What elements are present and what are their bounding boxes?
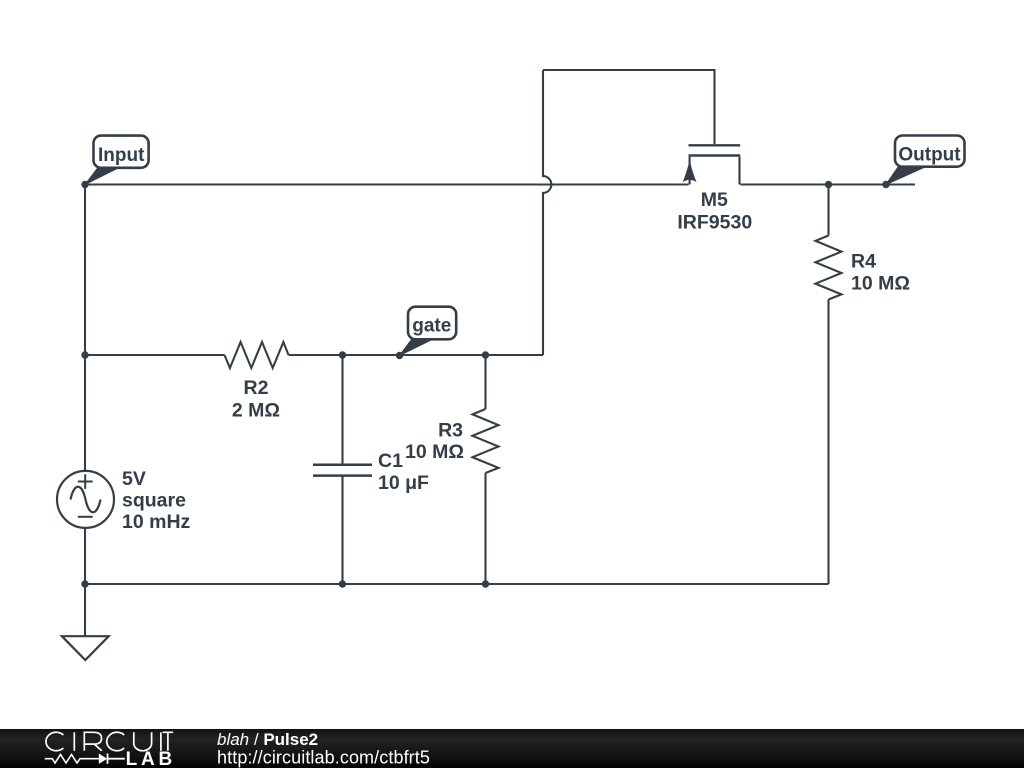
node dot C1 top bbox=[339, 351, 346, 358]
svg-text:5V: 5V bbox=[122, 468, 146, 490]
voltage source V1 minus sign bbox=[78, 516, 93, 518]
wire mid rail right (R2 to corner) bbox=[289, 354, 544, 356]
node dot R4 top junction bbox=[825, 181, 832, 188]
svg-text:R4: R4 bbox=[851, 251, 876, 273]
wire left vertical lower (V1 to bottom rail) bbox=[84, 528, 86, 584]
node dot gate anchor bbox=[396, 352, 403, 359]
capacitor C1 bottom lead bbox=[341, 477, 343, 585]
svg-text:10 MΩ: 10 MΩ bbox=[851, 273, 910, 295]
node dot Input bbox=[81, 181, 88, 188]
node dot left mid rail bbox=[81, 351, 88, 358]
logo resistor squiggle bbox=[45, 755, 99, 764]
resistor R4 bottom lead bbox=[827, 300, 829, 585]
wire top jog to M5 gate bbox=[543, 70, 715, 144]
node dot Output anchor bbox=[882, 181, 889, 188]
voltage source V1 plus sign bbox=[78, 474, 93, 489]
svg-text:R3: R3 bbox=[438, 420, 463, 442]
svg-text:square: square bbox=[122, 490, 186, 512]
resistor R3 bottom lead bbox=[484, 473, 486, 584]
voltage source V1 circle bbox=[57, 471, 114, 528]
svg-text:2 MΩ: 2 MΩ bbox=[232, 400, 280, 422]
transistor M5 gate bar bbox=[689, 144, 741, 146]
flag Input box bbox=[94, 136, 149, 168]
logo CIRCUIT outline letters bbox=[46, 732, 173, 751]
node dot R3 top bbox=[482, 351, 489, 358]
wire top rail right segment (M5 drain to right end) bbox=[741, 183, 916, 185]
flag Output box bbox=[895, 136, 965, 167]
flag Output tail bbox=[886, 167, 925, 185]
capacitor C1 top lead bbox=[341, 355, 343, 464]
svg-text:IRF9530: IRF9530 bbox=[677, 212, 752, 234]
svg-text:10 mHz: 10 mHz bbox=[122, 511, 191, 533]
transistor M5 channel bar bbox=[689, 154, 741, 156]
svg-text:M5: M5 bbox=[701, 189, 728, 211]
svg-text:10 μF: 10 μF bbox=[378, 472, 429, 494]
transistor M5 drain lead bbox=[738, 157, 740, 185]
logo diode bbox=[99, 754, 107, 764]
wire mid rail left (node to R2) bbox=[85, 354, 225, 356]
wire bottom rail bbox=[85, 583, 829, 585]
svg-text:Input: Input bbox=[98, 145, 145, 166]
wire left vertical upper (Input down to V1) bbox=[84, 185, 86, 472]
svg-text:10 MΩ: 10 MΩ bbox=[405, 441, 464, 463]
svg-text:C1: C1 bbox=[378, 450, 403, 472]
resistor R4 body bbox=[816, 236, 842, 300]
transistor M5 arrow bbox=[683, 160, 697, 182]
resistor R3 body bbox=[473, 409, 499, 473]
svg-text:R2: R2 bbox=[244, 377, 269, 399]
ground stem bbox=[84, 584, 86, 636]
node dot C1 bottom bbox=[339, 580, 346, 587]
resistor R3 top lead bbox=[484, 355, 486, 409]
wire top rail left segment (Input node to M5 source) bbox=[85, 183, 689, 185]
node dot ground junction bbox=[81, 580, 88, 587]
svg-text:LAB: LAB bbox=[126, 749, 176, 768]
flag gate tail bbox=[400, 340, 433, 356]
svg-text:Output: Output bbox=[898, 145, 961, 166]
voltage source V1 sine wave bbox=[71, 487, 101, 513]
svg-text:http://circuitlab.com/ctbfrt5: http://circuitlab.com/ctbfrt5 bbox=[217, 748, 430, 768]
node dot R3 bottom bbox=[482, 580, 489, 587]
resistor R4 top lead bbox=[827, 185, 829, 236]
flag Input tail bbox=[85, 168, 119, 185]
svg-text:gate: gate bbox=[412, 316, 451, 337]
resistor R2 body bbox=[225, 342, 289, 368]
wire vertical riser x=543 with hop over top rail bbox=[543, 70, 551, 355]
ground triangle bbox=[62, 636, 109, 660]
flag gate box bbox=[408, 307, 456, 340]
transistor M5 source lead bbox=[689, 157, 691, 185]
svg-text:blah / Pulse2: blah / Pulse2 bbox=[217, 730, 318, 749]
capacitor C1 plates bbox=[313, 465, 372, 476]
